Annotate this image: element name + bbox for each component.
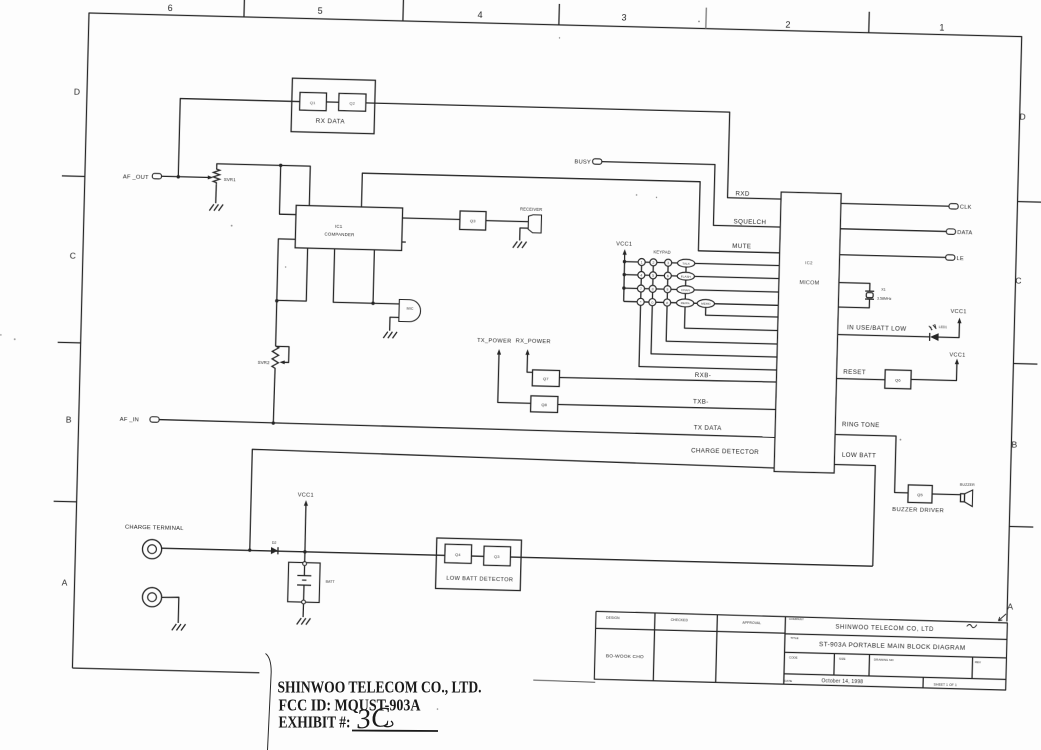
wire AF_IN to MICOM TX DATA [159, 420, 775, 438]
svg-text:3: 3 [667, 261, 669, 265]
wire branch down to compander left pin [279, 165, 297, 214]
svg-text:TX_POWER: TX_POWER [477, 338, 512, 345]
svg-text:1: 1 [641, 261, 643, 265]
exhibit underline [352, 730, 438, 733]
title block header labels [606, 616, 761, 625]
svg-text:9: 9 [666, 288, 668, 292]
svg-text:October 14, 1998: October 14, 1998 [821, 678, 863, 685]
wire SVR2 bottom to AF_IN line [273, 370, 275, 423]
svg-text:LOW BATT: LOW BATT [842, 452, 877, 460]
RX DATA filter block outline [291, 78, 375, 134]
svg-text:D: D [74, 87, 80, 97]
diode D2 [271, 547, 278, 554]
svg-text:IC1: IC1 [335, 224, 343, 229]
svg-text:TX DATA: TX DATA [694, 424, 723, 432]
wire compander bottom pin B3 down [373, 250, 374, 303]
wire negative terminal to ground [161, 597, 179, 623]
svg-text:2: 2 [785, 20, 790, 30]
svg-text:D: D [1019, 112, 1025, 122]
svg-text:4: 4 [640, 274, 642, 278]
key button 8 [649, 285, 656, 292]
svg-text:CHECKED: CHECKED [671, 618, 689, 622]
potentiometer SVR1 [213, 167, 220, 185]
svg-text:SQUELCH: SQUELCH [733, 218, 766, 226]
svg-text:BO-WOOK CHO: BO-WOOK CHO [606, 653, 644, 660]
code size drawing rev labels [789, 655, 981, 664]
wire keypad row 2 [624, 275, 685, 277]
svg-text:VCC1: VCC1 [298, 492, 314, 498]
svg-text:BUSY: BUSY [574, 159, 591, 165]
power VCC1 at LED [957, 318, 961, 324]
speaker RECEIVER [528, 215, 541, 233]
svg-text:Q4: Q4 [455, 552, 461, 557]
transistor Q5 buzzer driver [908, 485, 932, 503]
wire MICOM to LED [838, 335, 930, 337]
wire RE/PA output down to MICOM [685, 307, 779, 331]
svg-text:TITLE: TITLE [790, 636, 798, 640]
wire VCC1 bus keypad [623, 252, 624, 302]
svg-text:SHINWOO TELECOM CO., LTD.: SHINWOO TELECOM CO., LTD. [278, 678, 482, 697]
title block outline [594, 611, 1007, 690]
svg-text:4: 4 [477, 10, 482, 20]
key button RE/PA [676, 299, 693, 307]
wiper loop of SVR2 [275, 346, 289, 362]
svg-text:DESIGN: DESIGN [606, 616, 620, 620]
svg-text:1: 1 [939, 23, 944, 33]
svg-text:#: # [666, 301, 668, 305]
block Q2 in RX DATA [339, 93, 366, 111]
svg-text:SIZE: SIZE [839, 657, 846, 661]
terminal DATA [946, 229, 955, 235]
wire MICOM LOW BATT down to detector [832, 465, 876, 567]
svg-text:MIC: MIC [407, 307, 414, 311]
junction nodes VCC bus rows [623, 260, 626, 263]
svg-text:Q7: Q7 [543, 376, 549, 381]
svg-text:Q6: Q6 [895, 378, 901, 383]
svg-text:SHEET 1 OF 1: SHEET 1 OF 1 [934, 683, 957, 688]
wire LED to VCC1 [939, 320, 960, 338]
svg-text:X1: X1 [881, 288, 886, 292]
key button TALK [677, 259, 694, 267]
svg-text:5: 5 [652, 274, 654, 278]
pin stub compander right lower [402, 241, 406, 243]
svg-text:DRAWING NO: DRAWING NO [874, 658, 894, 663]
svg-text:Q5: Q5 [917, 492, 923, 497]
battery BATT [288, 562, 320, 602]
key button * [637, 298, 644, 305]
svg-text:RXD: RXD [735, 190, 750, 197]
wire from RX DATA block right to RXD corner [364, 103, 784, 199]
junction node AF_OUT / RX DATA [177, 175, 180, 178]
svg-text:C: C [1015, 276, 1021, 286]
ground below battery [297, 618, 302, 625]
wire battery to ground [302, 604, 304, 617]
svg-text:A: A [62, 577, 68, 587]
transistor Q4 [445, 544, 472, 563]
svg-text:MEMO: MEMO [701, 302, 711, 306]
svg-text:IC2: IC2 [805, 260, 813, 265]
wire keypad row 1 [624, 262, 685, 264]
key button 5 [649, 272, 656, 279]
connector charge terminal positive [142, 539, 162, 559]
junction node SVR1 top branch [279, 164, 282, 167]
svg-text:REV: REV [975, 660, 981, 664]
wire MICOM to CLK terminal [841, 203, 949, 206]
svg-text:CODE: CODE [789, 655, 798, 659]
ground below SVR1 [209, 204, 214, 211]
ruler ticks right border [1009, 202, 1041, 528]
svg-text:3.58MHz: 3.58MHz [877, 297, 892, 301]
junction node rail to SVR2 [275, 299, 278, 302]
wire between Q1 and Q2 [326, 101, 338, 103]
wire compander top pin to MUTE line [361, 173, 782, 253]
ruler zone letters left [61, 87, 80, 588]
svg-text:SVR2: SVR2 [258, 360, 270, 365]
wire rail to SVR2 [276, 301, 277, 343]
junction node charge detector tap [248, 548, 251, 551]
key button 7 [637, 285, 644, 292]
terminal CLK [949, 204, 958, 210]
wire keypad row 4 [624, 301, 698, 303]
wire keypad column 3 [667, 263, 668, 303]
svg-text:MICOM: MICOM [799, 280, 819, 287]
wire Q7 to MICOM RXB [559, 377, 776, 383]
junction node SVR2 / AF_IN [272, 421, 275, 424]
transistor Q8 [531, 396, 558, 413]
ruler ticks left border [54, 176, 85, 502]
block LOW BATT DETECTOR outline [436, 538, 522, 591]
svg-text:Q8: Q8 [541, 402, 547, 407]
wire BUSY to MICOM SQUELCH [600, 162, 782, 227]
svg-text:TXB-: TXB- [693, 398, 709, 405]
wire SVR1 bottom to ground [215, 185, 218, 204]
wire receiver to ground [520, 228, 529, 241]
wire MICOM to DATA terminal [840, 229, 946, 232]
key button 1 [638, 258, 645, 265]
connector charge terminal negative [142, 587, 162, 607]
wire compander left pin 2 to rail [277, 239, 296, 302]
wire TALK row to MICOM [695, 263, 780, 265]
ruler zone numbers top [167, 1, 944, 34]
ruler zone letters right [1007, 112, 1026, 612]
svg-text:COMPANDER: COMPANDER [324, 232, 354, 238]
svg-text:AF _OUT: AF _OUT [123, 174, 149, 181]
date cell October 14 1998 [784, 677, 863, 685]
block Q1 in RX DATA [300, 92, 327, 110]
wire Q8 to MICOM TXB [558, 404, 776, 410]
wire to microphone MIC [373, 302, 399, 305]
title cell ST-903A [790, 636, 966, 652]
block Q6 [885, 370, 911, 389]
svg-text:0: 0 [651, 301, 653, 305]
svg-text:FLASH: FLASH [681, 274, 691, 278]
key button CHAN [677, 286, 694, 294]
wire Q3 to receiver [486, 221, 528, 222]
svg-text:RECEIVER: RECEIVER [520, 206, 542, 212]
wire Q6 to VCC1 [911, 360, 957, 381]
power VCC1 at RESET [955, 359, 959, 365]
svg-text:COMPANY: COMPANY [789, 617, 804, 621]
wire MICOM to LE terminal [840, 255, 946, 258]
key button 2 [650, 259, 657, 266]
svg-text:RE/PA: RE/PA [681, 301, 691, 305]
key button 9 [664, 286, 671, 293]
LED LED1 [930, 333, 939, 341]
svg-text:B: B [1011, 439, 1017, 449]
key button FLASH [677, 272, 694, 280]
svg-text:C: C [70, 251, 76, 261]
key button 4 [638, 271, 645, 278]
wire keypad function column [685, 263, 686, 303]
wire MICOM to crystal X1 [839, 283, 870, 292]
svg-text:VCC1: VCC1 [616, 241, 632, 247]
svg-text:Q3: Q3 [470, 218, 476, 223]
block Q3 [460, 211, 486, 230]
terminal LE [946, 255, 955, 261]
junction node MIC input [371, 302, 374, 305]
svg-text:7: 7 [640, 287, 642, 291]
svg-text:DATE: DATE [784, 679, 792, 683]
wire keypad column 2 to MICOM [651, 306, 778, 357]
wire keypad row 3 [624, 288, 685, 290]
svg-text:RX DATA: RX DATA [316, 118, 346, 126]
wire keypad column 1 to MICOM [639, 305, 778, 370]
svg-text:VCC1: VCC1 [949, 352, 965, 358]
svg-text:SVR1: SVR1 [224, 177, 236, 182]
wire MEMO row to MICOM [714, 304, 778, 306]
svg-text:CLK: CLK [960, 205, 972, 211]
svg-text:RESET: RESET [843, 369, 866, 377]
svg-text:Q1: Q1 [310, 100, 316, 105]
op-amp block IC1 COMPANDER [295, 205, 403, 250]
wire from RX DATA block left to vertical drop [178, 99, 300, 180]
svg-text:EXHIBIT #:: EXHIBIT #: [279, 713, 351, 732]
ruler ticks top border [244, 0, 869, 33]
wire FLASH row to MICOM [694, 276, 779, 278]
wire compander bottom pin B2 down [333, 249, 374, 303]
svg-text:AF _IN: AF _IN [120, 417, 139, 423]
key button 6 [664, 272, 671, 279]
svg-text:APPROVAL: APPROVAL [742, 621, 761, 625]
wire VCC node to battery [304, 552, 306, 562]
wire charge terminal to battery node [162, 548, 873, 566]
wire MEMO output down to MICOM [706, 307, 779, 317]
svg-text:MUTE: MUTE [732, 243, 751, 250]
wire MICOM RING TONE to buzzer driver [834, 435, 910, 493]
wire SVR1 top to compander [216, 164, 310, 206]
transistor Q3 low batt [484, 546, 511, 566]
key button # [664, 299, 671, 306]
wire compander bottom pin B1 to rail [277, 247, 308, 301]
wire charge detector to MICOM [250, 449, 775, 563]
svg-text:TALK: TALK [682, 261, 691, 265]
wire CHAN row to MICOM [694, 290, 779, 292]
key button 3 [665, 259, 672, 266]
svg-text:Q2: Q2 [349, 101, 355, 106]
svg-text:6: 6 [667, 274, 669, 278]
svg-text:6: 6 [168, 3, 173, 13]
wire keypad column 1 [641, 262, 642, 302]
svg-text:RXB-: RXB- [695, 372, 712, 379]
svg-text:A: A [1007, 601, 1013, 611]
crystal X1 3.58MHz [865, 290, 874, 292]
svg-text:Q3: Q3 [494, 554, 500, 559]
svg-text:B: B [66, 415, 72, 425]
svg-text:KEYPAD: KEYPAD [653, 249, 670, 254]
svg-text:BATT: BATT [326, 580, 336, 584]
svg-text:CHAN: CHAN [681, 288, 690, 292]
wire Q5 to buzzer [932, 493, 960, 496]
microphone MIC [399, 299, 421, 322]
svg-text:2: 2 [652, 261, 654, 265]
ground below MIC [383, 332, 388, 339]
page fold line of exhibit overlay sheet [266, 654, 272, 750]
potentiometer SVR2 [272, 344, 279, 371]
svg-text:D2: D2 [272, 541, 277, 545]
svg-text:DATA: DATA [957, 230, 972, 236]
key button MEMO [697, 299, 714, 307]
junction node VCC battery [303, 550, 306, 553]
svg-text:RX_POWER: RX_POWER [516, 338, 551, 345]
transistor Q7 [532, 370, 559, 387]
microcontroller IC2 MICOM [774, 192, 841, 473]
key button 0 [649, 299, 656, 306]
svg-text:8: 8 [652, 287, 654, 291]
svg-text:5: 5 [317, 6, 322, 16]
ground below negative terminal [172, 624, 177, 631]
wire keypad column 2 [652, 262, 653, 302]
wire MIC to ground [390, 317, 399, 331]
ground below receiver [513, 241, 518, 248]
wire compander output to Q3 [402, 218, 459, 219]
zone arrow at title block corner [998, 614, 1006, 621]
svg-text:VCC1: VCC1 [950, 309, 966, 315]
buzzer BUZZER [960, 494, 964, 502]
svg-text:LE: LE [956, 256, 964, 262]
svg-text:LED1: LED1 [939, 325, 948, 329]
wire keypad column 3 to MICOM [666, 306, 778, 344]
svg-text:3: 3 [621, 12, 626, 22]
svg-text:BUZZER: BUZZER [960, 483, 975, 487]
company cell [789, 617, 977, 634]
wire AF_OUT to SVR1 [161, 176, 210, 177]
svg-text:RING TONE: RING TONE [842, 421, 880, 429]
wire MICOM RESET to Q6 [836, 379, 884, 380]
